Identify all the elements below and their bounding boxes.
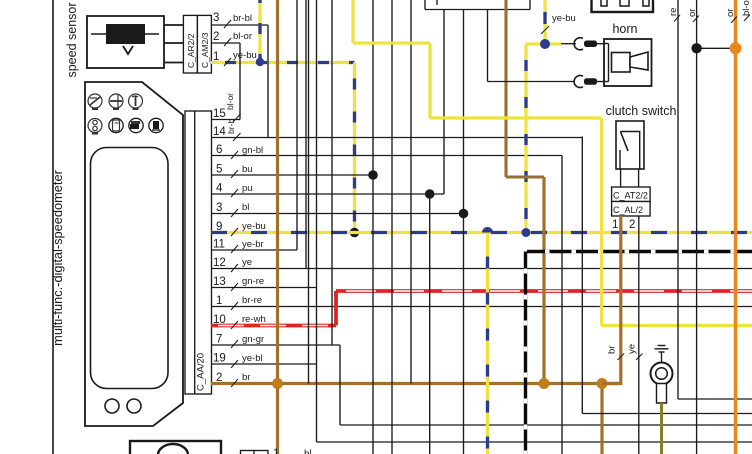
wire brown vertical x277	[276, 0, 279, 454]
wire re bottom horizontal y399	[678, 398, 752, 400]
wire yellow vertical x430	[428, 43, 431, 118]
pin 4 row pu	[211, 183, 444, 198]
wire ye branch vertical up x306	[305, 0, 307, 269]
pin 1 stub speed sensor	[164, 62, 183, 64]
connector C_AR2/2	[183, 15, 197, 73]
node junction pin5	[368, 170, 378, 180]
pin 2 stub speed sensor	[164, 42, 183, 44]
wire bl-or vertical pin15 link	[239, 43, 241, 120]
svg-text:br-re: br-re	[242, 295, 262, 306]
svg-text:2: 2	[213, 31, 219, 43]
svg-text:bl: bl	[304, 449, 312, 454]
wire br clutch vertical x621	[602, 216, 621, 384]
wire bu vertical x373	[372, 0, 374, 454]
component box bottom left	[130, 441, 221, 454]
svg-text:C_AM2/3: C_AM2/3	[200, 32, 210, 68]
pin 1 row br-re	[211, 295, 752, 310]
svg-text:horn: horn	[612, 22, 637, 36]
speedometer screw circle left	[105, 399, 119, 413]
wire brown jog horizontal y177	[506, 175, 544, 178]
svg-text:ye-br: ye-br	[242, 239, 264, 250]
svg-text:15: 15	[213, 108, 226, 120]
wire yellow horizontal y43	[353, 41, 430, 44]
connector C_AL/2	[612, 202, 651, 217]
label or black	[687, 9, 699, 22]
wire pin14 bottom horizontal y413	[582, 413, 752, 415]
wire gn-bl vertical x562	[561, 156, 563, 454]
svg-text:bl-or: bl-or	[233, 31, 252, 42]
label br clutch	[607, 346, 625, 360]
wire stub tick x437	[436, 0, 438, 5]
wire black dashed horizontal y251	[527, 250, 752, 253]
pin 9 row ye-bu wire	[211, 221, 752, 236]
wire bl vertical x463	[463, 10, 465, 454]
wire gn-gr drop vertical x340	[339, 345, 341, 425]
wire ye clutch vertical x639	[638, 216, 640, 454]
ground symbol	[655, 346, 669, 364]
speed sensor U	[87, 16, 164, 68]
pin 14 row	[212, 126, 583, 141]
svg-text:pu: pu	[242, 183, 253, 194]
speedometer screw circle right	[127, 399, 141, 413]
wire ye-bu branch vertical x487	[482, 227, 493, 454]
wire orange vertical x735	[734, 0, 738, 454]
wire bus stub up x530	[529, 0, 531, 10]
indicator icon 6	[129, 118, 143, 132]
svg-text:or: or	[687, 9, 698, 17]
wire vertical x308	[308, 0, 310, 384]
wire vertical x411	[410, 0, 412, 384]
terminal bullet 1	[574, 38, 604, 50]
svg-text:C_AA/20: C_AA/20	[196, 353, 207, 391]
svg-text:or: or	[725, 9, 736, 17]
pin 7 row gn-gr	[211, 334, 340, 349]
connector C_AM2/3	[197, 15, 211, 73]
svg-text:C_AL/2: C_AL/2	[613, 205, 643, 215]
connector C_AA/20 strip	[185, 111, 212, 394]
wire re-wh horizontal y291	[336, 289, 752, 293]
pin 3 stub speed sensor	[164, 24, 183, 26]
svg-text:19: 19	[213, 353, 226, 365]
wire br-bl vertical pin14 link	[267, 25, 269, 138]
indicator icon 5	[109, 118, 123, 132]
wire yellow vertical top x353	[351, 0, 354, 43]
wire bus horizontal y9	[425, 9, 530, 11]
wire ye-bu vertical to top	[256, 0, 264, 66]
label re	[668, 8, 680, 22]
svg-text:1: 1	[612, 219, 618, 231]
wire olive ground vertical x661	[660, 403, 663, 454]
wire ye-bu horn branch vertical x526	[522, 44, 531, 237]
speedometer body U	[85, 82, 183, 426]
indicator icon 7	[149, 118, 163, 132]
wire ye-bu pin1 horizontal	[211, 50, 355, 66]
svg-text:gn-gr: gn-gr	[242, 334, 264, 345]
wire gn-gr bottom horizontal y422	[340, 424, 752, 426]
node junction orange	[730, 42, 742, 54]
wire re-wh vertical jog x336	[334, 291, 338, 326]
frame border line left	[52, 0, 54, 454]
wire ye-bl bottom horizontal y441	[317, 441, 752, 443]
svg-text:7: 7	[216, 334, 222, 346]
svg-text:13: 13	[213, 276, 226, 288]
svg-text:C_AR2/2: C_AR2/2	[186, 33, 196, 68]
svg-text:4: 4	[216, 183, 223, 195]
wire ye-bu horn link horizontal y44	[526, 42, 561, 45]
wire gn-re ye-bl shared vertical x316	[316, 0, 318, 442]
pin 11 row ye-br	[211, 239, 297, 254]
pin 5 row bu	[211, 164, 373, 179]
svg-text:ye-bu: ye-bu	[552, 13, 576, 24]
node junction pin3	[459, 209, 469, 219]
svg-text:br: br	[242, 372, 250, 383]
svg-text:ye: ye	[627, 344, 638, 354]
wire brown vertical x544	[542, 177, 545, 384]
wire bl-or pin2	[211, 31, 252, 46]
wire ye-bu vertical x354	[353, 63, 356, 233]
label ye clutch	[627, 344, 643, 360]
node junction pin4	[425, 189, 435, 199]
svg-text:6: 6	[216, 144, 222, 156]
wire horn terminal 2	[488, 81, 576, 83]
connector block top	[592, 0, 654, 12]
svg-text:12: 12	[213, 257, 226, 269]
svg-text:11: 11	[213, 239, 225, 251]
pin 12 row ye	[211, 257, 752, 272]
clutch switch S	[616, 121, 644, 169]
svg-text:3: 3	[213, 12, 219, 24]
pin 2 row br wire brown	[211, 372, 621, 387]
svg-text:ye-bu: ye-bu	[233, 50, 257, 61]
svg-text:bu: bu	[242, 164, 253, 175]
wire pu up corner x444	[443, 10, 445, 195]
wire vertical x332	[331, 0, 333, 345]
pin 6 row gn-bl	[211, 144, 562, 159]
wire clutch stub 2	[638, 169, 640, 187]
wire clutch stub 1	[620, 169, 622, 187]
wire br-bl pin3	[211, 13, 268, 28]
svg-text:1: 1	[216, 295, 222, 307]
pin 3 row bl	[211, 202, 464, 217]
wire ye-br vertical up x297	[296, 0, 298, 250]
svg-text:multi-func.-digital-speedomete: multi-func.-digital-speedometer	[50, 169, 65, 345]
wire pin14 vertical x582	[581, 137, 583, 414]
svg-text:re: re	[668, 8, 679, 16]
svg-text:clutch switch: clutch switch	[606, 104, 677, 118]
terminal bullet 2	[574, 76, 604, 88]
svg-text:br: br	[607, 346, 618, 354]
svg-text:5: 5	[216, 164, 222, 176]
wire brown vertical x506	[504, 0, 507, 177]
svg-text:bl: bl	[242, 202, 249, 213]
svg-text:bl-o: bl-o	[741, 0, 752, 16]
label or orange	[725, 9, 737, 23]
svg-text:bl-or: bl-or	[225, 93, 235, 110]
label bl-or right edge	[741, 0, 752, 21]
ring terminal	[651, 363, 673, 404]
pin 15 row	[212, 108, 241, 122]
svg-text:gn-re: gn-re	[242, 276, 264, 287]
svg-text:3: 3	[216, 202, 222, 214]
node junction or black	[691, 43, 701, 53]
horn M	[604, 39, 652, 86]
node horn junction blue	[540, 39, 550, 49]
wire pu vertical x430	[429, 194, 431, 454]
pin 13 row gn-re	[211, 276, 317, 291]
svg-text:C_AT2/2: C_AT2/2	[613, 191, 648, 201]
connector C_AT2/2	[612, 187, 651, 202]
wire jumper or horizontal y48	[697, 47, 736, 49]
wire re vertical x678	[677, 0, 679, 399]
pin 19 row ye-bl	[211, 353, 317, 369]
node brown junction x544	[539, 378, 550, 389]
wire brown vertical down x602	[600, 384, 603, 454]
svg-text:re-wh: re-wh	[242, 314, 266, 325]
node brown junction x602	[597, 378, 608, 389]
wire black dashed vertical x525	[524, 252, 527, 454]
svg-text:ye-bl: ye-bl	[242, 353, 263, 364]
pin 10 row re-wh wire red	[211, 314, 336, 329]
svg-text:speed sensor: speed sensor	[65, 2, 79, 77]
wire ye-bu vertical top x545	[541, 0, 576, 44]
node brown junction pin2	[272, 378, 283, 389]
svg-text:14: 14	[213, 126, 226, 138]
indicator icon 1	[88, 94, 102, 110]
wire yellow horizontal y118	[430, 116, 602, 119]
svg-text:2: 2	[629, 219, 635, 231]
wire yellow vertical x601	[600, 118, 603, 326]
svg-text:ye-bu: ye-bu	[242, 221, 266, 232]
wire or vertical x696	[696, 0, 698, 454]
wire bus stub up x425	[424, 0, 426, 10]
svg-text:gn-bl: gn-bl	[242, 145, 263, 156]
wire vertical x392	[391, 0, 393, 454]
node junction ye-bu pin9	[350, 228, 360, 238]
indicator icon 2	[109, 94, 123, 110]
svg-text:br-bl: br-bl	[233, 13, 252, 24]
indicator icon 3	[129, 94, 143, 110]
svg-text:ye: ye	[242, 257, 252, 268]
wire yellow horizontal y325	[602, 324, 752, 327]
connector box bottom	[241, 451, 269, 454]
svg-text:1: 1	[273, 448, 279, 454]
wire horn terminal 1	[561, 43, 576, 45]
speedometer display	[91, 148, 169, 389]
wire horn terminal vertical x488	[487, 10, 489, 82]
indicator icon 4	[88, 119, 102, 135]
